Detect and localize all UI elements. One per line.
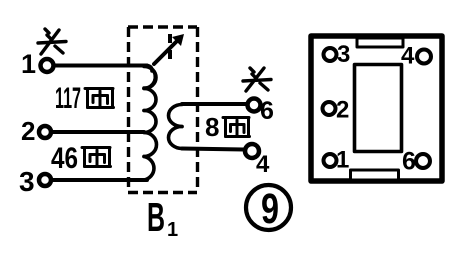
adjustable core (dashed line with arrow) [154, 34, 178, 64]
package mounting slot top [357, 38, 403, 47]
wire: terminal 1 to primary winding top [54, 64, 147, 68]
wire: terminal 2 to primary winding tap [51, 130, 144, 134]
svg-text:4: 4 [401, 43, 415, 70]
winding start mark 头 (terminal 1) [38, 29, 66, 54]
terminal 3 solder lug [39, 174, 51, 186]
svg-text:B: B [147, 194, 165, 240]
secondary winding (8 turns) [169, 105, 183, 149]
package core window (inner rectangle) [355, 65, 402, 152]
svg-text:46: 46 [51, 142, 78, 175]
svg-text:6: 6 [260, 97, 274, 125]
svg-text:1: 1 [336, 147, 349, 174]
svg-text:9: 9 [261, 185, 279, 233]
wire: secondary winding bottom to terminal 4 [182, 149, 244, 150]
transformer shield box (dashed) [128, 27, 198, 193]
primary winding B1 (taps at 1,2,3) [144, 66, 157, 181]
svg-text:4: 4 [256, 151, 270, 178]
package outline (bottom view) [311, 36, 442, 181]
terminal 4 solder lug [245, 144, 259, 158]
svg-text:2: 2 [21, 116, 35, 146]
terminal 1 solder lug [41, 59, 54, 72]
svg-text:3: 3 [19, 166, 35, 197]
wire: secondary winding top to terminal 6 [182, 102, 247, 106]
svg-text:1: 1 [21, 49, 36, 79]
winding start mark 头 (terminal 6) [243, 68, 271, 91]
terminal 2 solder lug [39, 126, 51, 138]
package mounting slot bottom [351, 170, 399, 180]
terminal 6 solder lug [248, 99, 261, 112]
svg-text:2: 2 [336, 97, 349, 124]
svg-text:8: 8 [205, 112, 219, 142]
package pin 3 [324, 48, 337, 61]
figure number (9) [246, 185, 291, 230]
wire: terminal 3 to primary winding bottom [51, 178, 147, 182]
svg-text:6: 6 [402, 148, 416, 176]
package pin 1 [324, 154, 337, 167]
package pin 2 [323, 102, 336, 115]
svg-text:1: 1 [167, 219, 178, 241]
svg-text:117: 117 [55, 82, 81, 115]
svg-text:3: 3 [337, 41, 350, 68]
